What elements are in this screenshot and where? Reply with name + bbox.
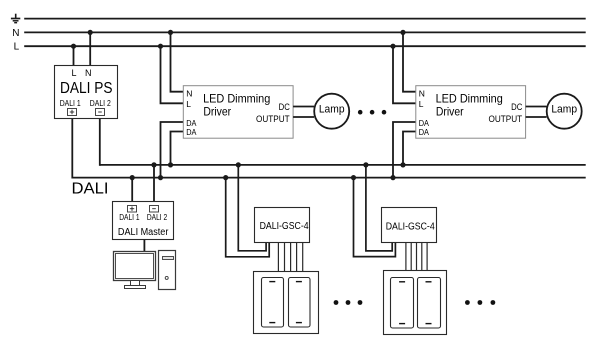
GSC2 box <box>382 208 437 243</box>
wire: DALI PS N pin to N bus <box>89 32 91 65</box>
wire: master DALI2(-) to DALI - bus <box>153 165 155 205</box>
group controller DALI-GSC-4 #2 <box>351 162 437 270</box>
wire: DALI + bus (lower) <box>72 177 585 179</box>
group controller DALI-GSC-4 #1 <box>223 162 309 271</box>
junction on DALI - bus at driver2 <box>400 162 405 167</box>
wire: driver1 OUTPUT return to lamp <box>293 116 314 118</box>
LED dimming driver 2 <box>390 30 546 180</box>
svg-text:Driver: Driver <box>436 104 464 118</box>
svg-text:DALI 2: DALI 2 <box>90 99 111 108</box>
wire: driver2 N pin to N bus <box>403 32 416 91</box>
pin DALI1 + terminal <box>128 206 137 213</box>
ground symbol <box>11 14 20 23</box>
rocker switch 2a <box>391 278 414 329</box>
wire: PE (earth) bus <box>24 18 586 20</box>
svg-text:L: L <box>419 99 424 109</box>
wire: GSC2 from DALI - bus <box>366 165 392 251</box>
svg-text:DA: DA <box>419 127 429 137</box>
junction on L bus at driver2 <box>390 44 395 49</box>
svg-text:L: L <box>14 42 20 53</box>
power supply DALI PS <box>55 66 118 119</box>
svg-text:DC: DC <box>279 102 291 112</box>
wire: GSC1 from DALI - bus <box>238 165 266 251</box>
wire: driver1 DC output to lamp <box>293 106 314 108</box>
driver2 box <box>416 86 526 139</box>
junction on DALI - bus at driver1 <box>168 162 173 167</box>
pin DALI1 + terminal <box>68 109 77 116</box>
junction on N bus at DALI PS <box>88 30 93 35</box>
GSC1 box <box>255 208 310 243</box>
wire: driver2 DA2 pin to DALI - bus <box>403 132 416 165</box>
junction on N bus at driver2 <box>400 30 405 35</box>
junction on DALI + bus at driver2 <box>390 175 395 180</box>
svg-text:N: N <box>12 28 19 39</box>
PC monitor <box>114 252 156 289</box>
wire: DALI PS DALI2(-) to DALI - bus <box>99 116 101 166</box>
junction on DALI + bus at GSC2 <box>351 175 356 180</box>
junction on N bus at driver1 <box>168 30 173 35</box>
wire: N (neutral) bus <box>24 31 586 33</box>
rocker switch 1b <box>289 278 311 328</box>
switch panel 1 <box>254 272 319 334</box>
svg-text:DALI Master: DALI Master <box>118 227 169 238</box>
svg-text:Lamp: Lamp <box>551 103 577 115</box>
pin DALI2 - terminal <box>96 109 105 116</box>
svg-text:DA: DA <box>186 127 196 137</box>
junction on DALI + bus at GSC1 <box>223 175 228 180</box>
switch panel 2 <box>384 271 447 335</box>
junction on L bus at DALI PS <box>71 44 76 49</box>
wire: driver2 DA1 pin to DALI + bus <box>393 122 416 178</box>
pin DALI2 - terminal <box>150 206 159 213</box>
junction on DALI + bus at master <box>130 175 135 180</box>
wire: GSC1 from DALI + bus <box>226 178 270 257</box>
rocker switch 2b <box>418 278 441 329</box>
PC tower <box>159 251 176 290</box>
lamp 1 <box>314 94 349 129</box>
DALI master <box>113 162 174 239</box>
svg-text:DALI-GSC-4: DALI-GSC-4 <box>260 221 310 232</box>
svg-text:N: N <box>186 88 192 98</box>
continuation dots after lamp 1 <box>358 110 386 115</box>
wire: master to PC <box>143 240 145 253</box>
svg-text:Lamp: Lamp <box>319 103 345 115</box>
wire: DALI PS L pin to L bus <box>73 46 75 65</box>
svg-text:DALI-GSC-4: DALI-GSC-4 <box>386 221 436 232</box>
lamp 2 <box>547 94 582 129</box>
continuation dots between panels <box>334 300 363 305</box>
wire: DALI - bus (upper) <box>100 164 586 166</box>
wire: driver1 L pin to L bus <box>161 46 184 103</box>
svg-text:DC: DC <box>511 102 523 112</box>
svg-text:DALI 1: DALI 1 <box>119 213 140 222</box>
svg-text:OUTPUT: OUTPUT <box>489 114 523 124</box>
wire: GSC2 from DALI + bus <box>354 178 396 257</box>
rocker switch 1a <box>262 278 284 328</box>
svg-text:DALI 1: DALI 1 <box>60 99 81 108</box>
wires: GSC2 to switch panel 2 <box>406 243 427 271</box>
svg-text:N: N <box>419 88 425 98</box>
svg-text:Driver: Driver <box>203 104 231 118</box>
wire: driver1 DA2 pin to DALI - bus <box>171 132 184 165</box>
wire: master DALI1(+) to DALI + bus <box>131 178 133 206</box>
wire: driver1 N pin to N bus <box>171 32 184 91</box>
junction on DALI - bus at master <box>151 162 156 167</box>
svg-text:DALI: DALI <box>72 181 109 198</box>
svg-text:OUTPUT: OUTPUT <box>256 114 290 124</box>
driver1 box <box>183 86 293 139</box>
svg-text:DALI 2: DALI 2 <box>147 213 168 222</box>
svg-text:DALI PS: DALI PS <box>60 80 113 97</box>
master box <box>113 202 174 240</box>
continuation dots right <box>465 300 495 305</box>
wire: DALI PS DALI1(+) to DALI + bus <box>71 116 73 179</box>
wire: driver2 L pin to L bus <box>393 46 416 103</box>
junction on L bus at driver1 <box>158 44 163 49</box>
LED dimming driver 1 <box>158 30 314 180</box>
wire: driver1 DA1 pin to DALI + bus <box>161 122 184 178</box>
wires: GSC1 to switch panel 1 <box>278 242 302 271</box>
junction on DALI - bus at GSC2 <box>363 162 368 167</box>
wire: driver2 OUTPUT return to lamp <box>526 116 547 118</box>
wire: driver2 DC output to lamp <box>526 106 547 108</box>
junction on DALI + bus at driver1 <box>158 175 163 180</box>
junction on DALI - bus at GSC1 <box>236 162 241 167</box>
svg-text:N: N <box>85 68 92 78</box>
svg-text:L: L <box>186 99 191 109</box>
wire: L (live) bus <box>24 45 586 47</box>
svg-text:L: L <box>71 68 76 78</box>
